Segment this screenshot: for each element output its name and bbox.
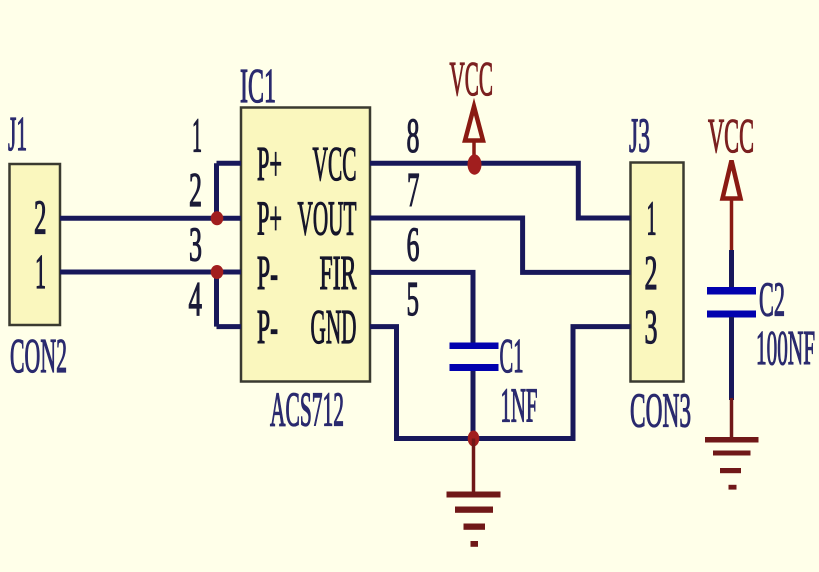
wire VOUT net IC1.7 to J3.2 (370, 218, 631, 272)
svg-text:6: 6 (407, 217, 420, 272)
power symbol VCC (left) (450, 51, 494, 157)
node junction GND rail (468, 431, 480, 447)
svg-text:P+: P+ (257, 136, 282, 191)
svg-text:1: 1 (647, 191, 657, 246)
svg-text:CON2: CON2 (10, 328, 67, 383)
svg-text:VCC: VCC (313, 136, 357, 191)
node junction VCC on wire (468, 154, 482, 174)
wire C2 lead to ground (730, 398, 734, 437)
svg-text:ACS712: ACS712 (270, 382, 344, 437)
svg-text:C1: C1 (500, 328, 524, 383)
svg-text:1: 1 (35, 244, 46, 299)
svg-text:4: 4 (189, 271, 203, 326)
svg-text:7: 7 (407, 162, 420, 217)
capacitor C1 (450, 328, 538, 433)
connector J1 box (10, 164, 61, 325)
svg-text:P-: P- (257, 245, 278, 300)
svg-text:3: 3 (645, 299, 658, 354)
svg-text:C2: C2 (759, 272, 785, 327)
svg-text:CON3: CON3 (630, 383, 691, 438)
svg-text:2: 2 (189, 162, 202, 217)
svg-text:2: 2 (645, 245, 658, 300)
svg-text:1NF: 1NF (501, 378, 538, 433)
svg-text:GND: GND (311, 299, 357, 354)
wire vertical IC1.1-IC1.2 tie (217, 163, 242, 218)
svg-text:100NF: 100NF (756, 320, 815, 375)
wire VCC net IC1.8 to J3.1 (370, 163, 631, 218)
svg-text:J3: J3 (629, 108, 650, 163)
wire C2 bottom lead (729, 317, 734, 400)
node junction J1.1 (211, 265, 224, 279)
svg-text:1: 1 (192, 108, 202, 163)
svg-text:2: 2 (34, 190, 47, 245)
ground symbol (center) (447, 439, 501, 547)
connector J3 box (631, 163, 684, 382)
wire J1.1 to IC1.3 (60, 270, 241, 275)
wire FIR net IC1.6 to C1 (370, 272, 473, 343)
ground symbol (right) (705, 437, 759, 490)
svg-text:VCC: VCC (708, 108, 754, 163)
svg-text:J1: J1 (8, 106, 27, 161)
svg-text:VOUT: VOUT (298, 191, 357, 246)
capacitor C2 (707, 272, 815, 376)
wire vertical IC1.3-IC1.4 tie (217, 272, 242, 327)
wire C1 bottom lead (471, 370, 476, 439)
svg-text:VCC: VCC (450, 51, 494, 106)
wire C2 top lead (729, 250, 734, 288)
svg-text:8: 8 (407, 108, 420, 163)
svg-text:P+: P+ (257, 191, 282, 246)
node junction J1.2 (211, 211, 224, 225)
svg-text:5: 5 (407, 271, 420, 326)
power symbol VCC (right) (708, 108, 754, 252)
svg-text:P-: P- (257, 299, 278, 354)
wire J1.2 to IC1.2 (60, 216, 241, 221)
svg-text:IC1: IC1 (240, 58, 276, 113)
wire GND net IC1.5 to J3.3 (370, 327, 631, 439)
svg-text:3: 3 (189, 217, 202, 272)
IC1 box (ACS712) (241, 108, 370, 382)
svg-text:FIR: FIR (320, 245, 357, 300)
